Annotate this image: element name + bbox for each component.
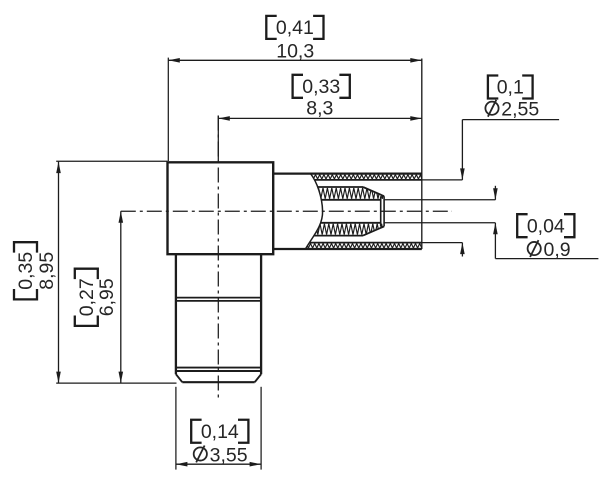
svg-text:0,35: 0,35: [15, 252, 37, 290]
svg-text:0,9: 0,9: [544, 239, 571, 261]
svg-text:0,33: 0,33: [302, 76, 340, 98]
svg-text:2,55: 2,55: [501, 99, 539, 121]
svg-text:8,3: 8,3: [306, 98, 333, 120]
svg-text:3,55: 3,55: [210, 444, 248, 466]
svg-text:8,95: 8,95: [36, 252, 58, 290]
svg-text:0,27: 0,27: [76, 278, 98, 316]
svg-text:6,95: 6,95: [96, 278, 118, 316]
svg-text:0,14: 0,14: [201, 421, 239, 443]
svg-text:0,04: 0,04: [527, 215, 565, 237]
svg-text:0,1: 0,1: [497, 77, 524, 99]
svg-text:0,41: 0,41: [276, 17, 314, 39]
svg-text:10,3: 10,3: [276, 41, 314, 63]
